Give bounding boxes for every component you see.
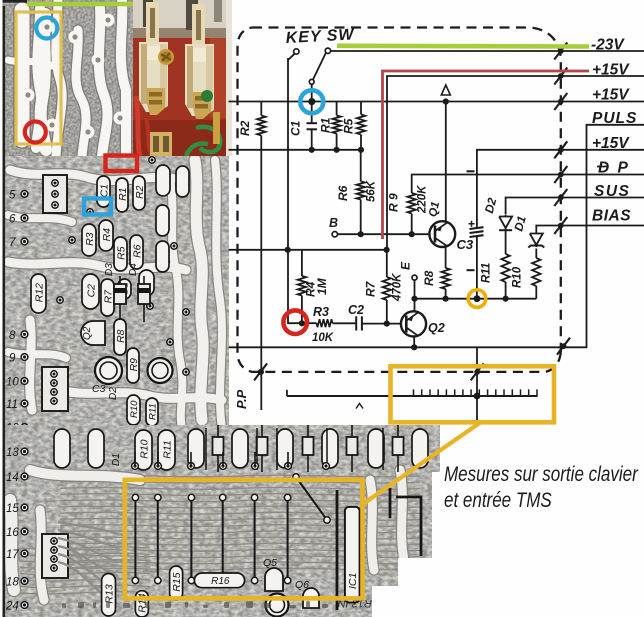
wire: C2 to Q2 base <box>362 323 401 325</box>
annotation: yellow rectangle on PCB view <box>16 12 61 144</box>
trace fan lower-left <box>58 522 118 604</box>
svg-text:D P: D P <box>598 160 630 177</box>
svg-text:D3: D3 <box>104 263 115 276</box>
svg-text:8: 8 <box>9 330 16 342</box>
svg-text:R15: R15 <box>171 572 183 591</box>
resistor R5 <box>360 102 362 115</box>
svg-text:R10: R10 <box>138 439 150 458</box>
net +15V wire (row4 right) <box>477 150 644 226</box>
net BIAS wire <box>536 226 644 232</box>
net PULS wire <box>229 125 644 347</box>
resistor R2 <box>260 102 262 116</box>
annotation: yellow rectangle (bus measure zone) <box>391 366 555 422</box>
svg-text:C1: C1 <box>289 120 303 136</box>
upper small components <box>205 428 207 470</box>
svg-text:R6: R6 <box>131 244 143 258</box>
annotation: blue circle on PCB view <box>36 18 57 39</box>
svg-text:D1: D1 <box>511 214 529 233</box>
net DP wire <box>412 175 644 194</box>
svg-text:SUS: SUS <box>594 183 630 200</box>
svg-text:Q2: Q2 <box>82 326 93 340</box>
svg-text:+15V: +15V <box>592 87 630 104</box>
svg-text:Q1: Q1 <box>427 201 442 219</box>
junction dots on +15V rails <box>309 147 315 153</box>
svg-text:C3: C3 <box>92 383 106 395</box>
annotation: green line (-23V in schematic) <box>337 43 589 48</box>
capacitor C1 <box>311 102 313 124</box>
svg-text:R7: R7 <box>102 289 114 304</box>
dashed PCB boundary outline <box>238 28 561 372</box>
svg-text:R3: R3 <box>313 305 329 319</box>
resistor R9 220K <box>408 193 416 214</box>
svg-text:B: B <box>329 216 338 230</box>
annotation: red line (+15V path) <box>383 71 590 239</box>
svg-text:R1: R1 <box>319 117 333 133</box>
svg-text:R8: R8 <box>115 329 127 343</box>
svg-text:D1: D1 <box>111 453 122 466</box>
resistor R4 1M <box>301 250 303 276</box>
svg-text:C1: C1 <box>98 184 110 197</box>
wire: Q2 emitter down to PULS line <box>413 336 415 347</box>
annotation: yellow rectangle (keyboard output zone) <box>125 480 363 599</box>
scattered pads <box>149 157 155 163</box>
svg-text:E: E <box>399 261 413 270</box>
svg-text:Q2: Q2 <box>428 321 445 335</box>
plus mark <box>469 221 475 227</box>
transistor Q2 (PNP) <box>401 311 426 336</box>
svg-text:17: 17 <box>6 549 19 561</box>
svg-text:14: 14 <box>6 472 19 484</box>
annotation: blue rectangle on PCB view <box>84 199 111 215</box>
capacitor C2 <box>355 316 357 330</box>
svg-text:R5: R5 <box>342 118 356 134</box>
annotation: blue circle (key junction) <box>300 90 323 113</box>
wire: Q1 emitter to +15V rail <box>445 102 447 222</box>
PCB scan: coarse copper-trace close-up (top-left) <box>0 0 133 156</box>
svg-text:6: 6 <box>9 214 16 226</box>
capacitor C3 (electrolytic) <box>476 226 478 228</box>
transistor can <box>95 357 122 384</box>
connector block 3 <box>42 534 68 578</box>
wire: emitter/output rail <box>415 298 537 300</box>
diode D1 (zener) <box>530 231 543 247</box>
svg-text:R13: R13 <box>103 584 115 603</box>
hand-drawn schematic <box>229 26 644 420</box>
wire: B to Q1 base <box>338 233 430 235</box>
svg-text:R10: R10 <box>512 266 524 288</box>
wire: E down through node to Q2 <box>414 280 416 311</box>
annotation: red rectangle on PCB view <box>106 156 138 172</box>
svg-text:+15V: +15V <box>592 62 630 79</box>
svg-text:R11: R11 <box>161 440 173 458</box>
resistor R3 10K <box>317 319 333 327</box>
svg-text:13: 13 <box>6 447 19 459</box>
net +15V rail (row4 left) <box>229 149 362 151</box>
svg-text:+15V: +15V <box>592 135 630 152</box>
connector block 2 <box>42 367 68 411</box>
jumper wires (highlighted zone) <box>134 498 136 581</box>
node: comb center tap <box>474 393 481 400</box>
node: key junction (blue circled) <box>308 98 315 105</box>
resistor R1 <box>336 102 338 116</box>
svg-text:D2: D2 <box>482 196 500 215</box>
wire: R2 down to P.P (crosses dashed border) <box>260 136 262 411</box>
component row <box>54 429 70 468</box>
wire: comb tap up / down <box>476 347 478 396</box>
diagonal jumper <box>296 477 327 520</box>
svg-text:BIAS: BIAS <box>592 208 631 225</box>
svg-text:R5: R5 <box>115 246 127 260</box>
transistor can bottom <box>266 594 289 617</box>
svg-text:R16: R16 <box>211 576 230 587</box>
IC1 <box>345 507 360 603</box>
component outlines with labels <box>97 176 110 207</box>
diode D4 <box>143 276 145 322</box>
diode D2 <box>499 215 512 231</box>
svg-text:10: 10 <box>6 377 19 389</box>
minus marks <box>467 170 475 172</box>
svg-text:D4: D4 <box>128 263 139 276</box>
svg-text:C2: C2 <box>85 284 97 298</box>
svg-text:R10: R10 <box>129 400 140 418</box>
node: P.P crossing on dashed border <box>258 369 264 375</box>
svg-text:Q5: Q5 <box>263 557 277 569</box>
resistor R8 <box>441 268 449 289</box>
caret mark <box>356 404 363 409</box>
resistor R6 56K <box>360 150 362 182</box>
PCB scan: lower board section <box>0 425 440 617</box>
svg-text:R7: R7 <box>364 280 378 297</box>
net SUS wire <box>506 198 644 215</box>
net +15V rail (row3) <box>229 101 644 103</box>
resistor R10 <box>535 249 537 259</box>
svg-text:D2: D2 <box>108 387 119 400</box>
svg-text:R11: R11 <box>481 263 493 283</box>
svg-text:10K: 10K <box>312 332 334 344</box>
svg-text:R3: R3 <box>84 232 96 246</box>
wire: left switch contact down <box>287 58 289 250</box>
annotation: green line (-23V net on PCB) <box>27 2 133 7</box>
svg-text:9: 9 <box>9 353 16 365</box>
annotation: red circle on PCB view <box>25 122 46 143</box>
wire: switch line corner into R3 (red circled node) <box>288 249 317 323</box>
annotation: yellow leader line <box>362 422 482 505</box>
svg-text:C2: C2 <box>348 303 364 317</box>
net +15V wire (row2) <box>387 76 644 250</box>
bottom edge marks <box>62 601 328 608</box>
wire: Q1 collector down to R8 <box>445 247 447 268</box>
svg-text:7: 7 <box>9 237 16 249</box>
connector block <box>43 175 67 213</box>
svg-text:220K: 220K <box>417 185 429 214</box>
svg-text:R6: R6 <box>336 185 350 201</box>
annotation: yellow circle (output node) <box>468 290 486 308</box>
svg-text:-23V: -23V <box>591 37 625 54</box>
+15V arrow marker <box>441 85 450 95</box>
svg-text:R8: R8 <box>422 270 436 286</box>
svg-text:PULS: PULS <box>592 110 637 127</box>
transistor Q5 outline <box>265 568 283 591</box>
keyboard bus bar (comb) <box>287 395 538 397</box>
wire: R3 to C2 <box>333 322 357 324</box>
svg-text:470K: 470K <box>392 273 404 302</box>
svg-text:24: 24 <box>5 601 19 613</box>
transistor Q2 outline <box>81 321 105 345</box>
wire: base bias line <box>229 249 387 251</box>
svg-text:16: 16 <box>6 527 19 539</box>
svg-text:R1: R1 <box>117 187 129 200</box>
svg-text:18: 18 <box>6 577 19 589</box>
photo inset: keyboard contact close-up <box>133 0 232 156</box>
svg-text:15: 15 <box>6 503 19 515</box>
svg-text:R2: R2 <box>238 120 252 136</box>
svg-text:C3: C3 <box>457 237 474 252</box>
svg-text:11: 11 <box>6 399 18 411</box>
resistor R7 470K <box>386 250 388 277</box>
svg-text:R4: R4 <box>101 228 113 242</box>
stub wires above highlighted zone <box>134 452 136 466</box>
svg-text:56K: 56K <box>366 180 378 202</box>
net -23V wire <box>331 50 644 52</box>
resistor R11 <box>505 230 507 254</box>
svg-text:R12: R12 <box>33 283 45 302</box>
svg-text:P.P: P.P <box>234 389 249 409</box>
svg-text:R11: R11 <box>147 403 158 420</box>
svg-text:IC1: IC1 <box>347 573 359 589</box>
svg-text:R9: R9 <box>128 358 140 372</box>
measurement slash marks on boundary <box>554 43 567 60</box>
svg-text:1M: 1M <box>315 277 329 295</box>
transistor Q1 (PNP) <box>429 221 455 247</box>
svg-text:R 9: R 9 <box>387 193 401 212</box>
PCB scan: component layout (middle-left) <box>0 156 229 435</box>
svg-text:5: 5 <box>9 189 16 201</box>
thick traces near IC1 <box>337 488 421 610</box>
annotation: red circle (R3 node) <box>283 310 307 334</box>
diode D3 <box>119 276 121 322</box>
svg-text:R2: R2 <box>134 185 146 199</box>
transistor can 2 <box>148 358 173 383</box>
